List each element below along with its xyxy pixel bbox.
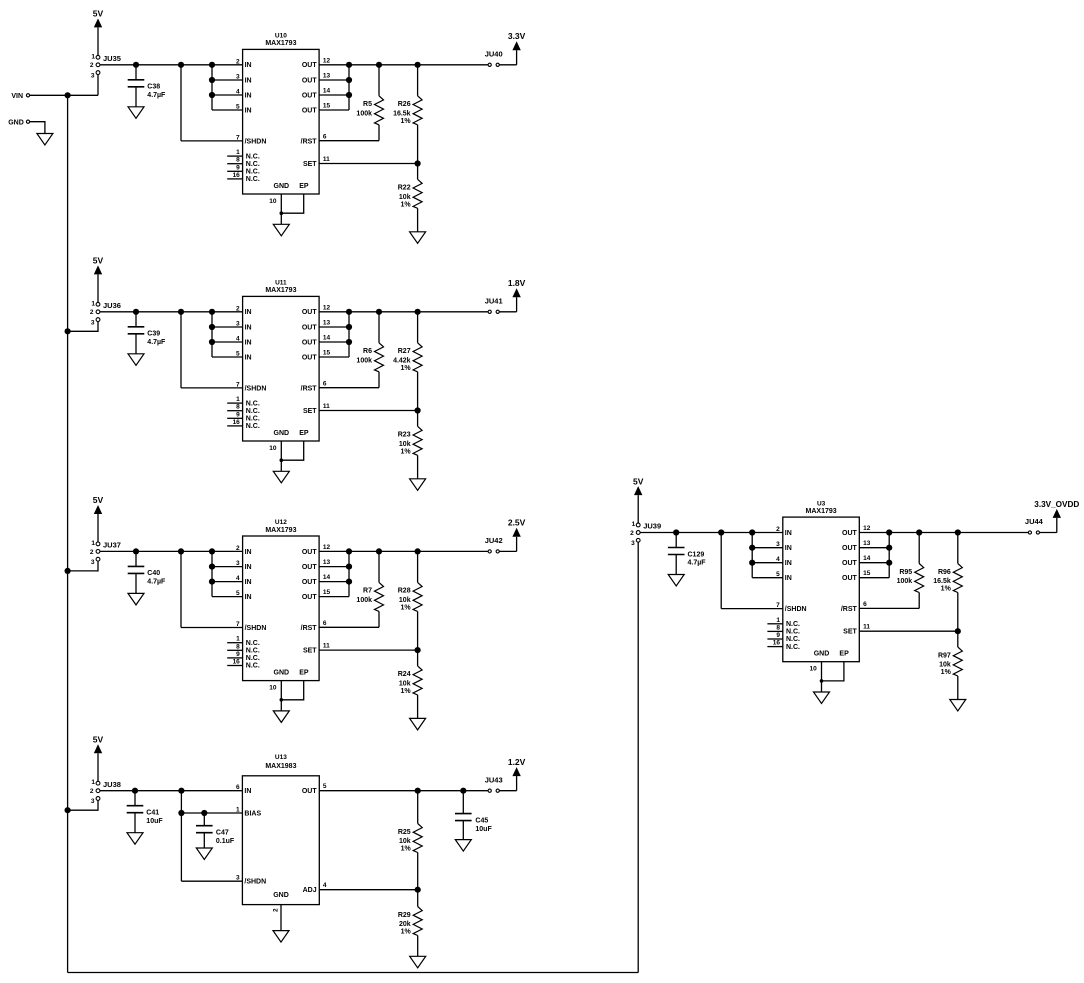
capacitor C41 10uF [127, 791, 164, 833]
svg-text:EP: EP [299, 430, 309, 437]
svg-text:IN: IN [245, 324, 252, 331]
svg-text:11: 11 [323, 156, 330, 163]
svg-text:15: 15 [323, 103, 331, 110]
jumper JU38 3-pin header [90, 779, 121, 805]
svg-text:10k: 10k [939, 662, 951, 669]
svg-text:16.5k: 16.5k [393, 110, 411, 117]
svg-text:0.1uF: 0.1uF [216, 838, 235, 845]
svg-text:1%: 1% [941, 586, 952, 593]
svg-text:IN: IN [785, 545, 792, 552]
wire JU39 pin2 to U3 IN [640, 529, 783, 535]
svg-text:U11: U11 [275, 280, 287, 287]
svg-text:OUT: OUT [302, 309, 318, 316]
svg-text:1%: 1% [941, 669, 952, 676]
svg-text:1: 1 [236, 396, 240, 403]
resistor R95 100k [897, 533, 924, 609]
ground under R24 [410, 718, 426, 730]
svg-text:3: 3 [236, 560, 240, 567]
pin numbers U13 [236, 783, 327, 912]
svg-text:5V: 5V [93, 9, 104, 19]
svg-text:10k: 10k [399, 838, 411, 845]
svg-text:1%: 1% [400, 365, 411, 372]
svg-text:15: 15 [863, 570, 871, 577]
svg-text:8: 8 [236, 157, 240, 164]
ground under R22 [410, 232, 426, 244]
wire VIN bottom run to JU39 [68, 972, 639, 974]
svg-text:10: 10 [269, 685, 277, 692]
svg-text:R22: R22 [398, 185, 411, 192]
resistor R29 20k 1% [398, 890, 422, 957]
resistor R5 100k [356, 65, 383, 141]
svg-text:5V: 5V [633, 476, 644, 486]
svg-text:1: 1 [91, 540, 95, 547]
ground under U11 GND pin [273, 471, 289, 483]
resistor R96 16.5k 1% [933, 533, 962, 632]
svg-text:100k: 100k [356, 597, 372, 604]
svg-text:GND: GND [274, 670, 290, 677]
svg-text:2: 2 [90, 788, 94, 795]
svg-text:OUT: OUT [302, 354, 318, 361]
svg-text:OUT: OUT [302, 62, 318, 69]
svg-text:1%: 1% [401, 846, 412, 853]
resistor R97 10k 1% [938, 631, 962, 699]
svg-text:3: 3 [236, 875, 240, 882]
wire /RST to R6 [319, 387, 379, 389]
svg-text:4.7µF: 4.7µF [147, 579, 166, 586]
svg-text:2: 2 [90, 62, 94, 69]
jumper JU40 2-pin [485, 50, 503, 67]
svg-text:100k: 100k [356, 110, 372, 117]
svg-text:13: 13 [323, 320, 331, 327]
svg-text:15: 15 [323, 350, 331, 357]
jumper JU44 2-pin [1025, 517, 1044, 534]
svg-text:10uF: 10uF [475, 826, 492, 833]
ground under C129 [668, 575, 684, 587]
svg-text:U10: U10 [275, 33, 287, 40]
svg-text:C38: C38 [147, 84, 160, 91]
wire GND/EP pins (U10) pin 10 [269, 194, 303, 224]
svg-text:/SHDN: /SHDN [245, 138, 267, 145]
svg-text:16: 16 [233, 172, 241, 179]
svg-text:16: 16 [773, 640, 781, 647]
capacitor C47 0.1uF [196, 810, 235, 848]
svg-text:7: 7 [776, 602, 780, 609]
svg-text:IN: IN [245, 309, 252, 316]
op-amp regulator U10 MAX1793 [243, 33, 320, 194]
svg-text:1: 1 [91, 53, 95, 60]
svg-text:14: 14 [323, 88, 331, 95]
svg-text:1: 1 [91, 300, 95, 307]
N.C. pin stubs (U12) [227, 643, 242, 666]
svg-text:OUT: OUT [302, 324, 318, 331]
svg-text:IN: IN [245, 549, 252, 556]
svg-text:R96: R96 [938, 569, 951, 576]
wire JU36 pin2 to U11 IN [100, 309, 243, 315]
regulator U13 MAX1983 [242, 754, 319, 904]
svg-text:14: 14 [323, 335, 331, 342]
svg-text:20k: 20k [399, 921, 411, 928]
svg-text:N.C.: N.C. [246, 423, 260, 430]
svg-text:7: 7 [236, 621, 240, 628]
svg-text:/RST: /RST [301, 138, 318, 145]
svg-text:SET: SET [843, 629, 857, 636]
capacitor C40 4.7µF [128, 551, 166, 593]
node GND input terminal [8, 119, 29, 126]
svg-text:IN: IN [785, 560, 792, 567]
wire SET to divider node (U12) [319, 647, 421, 653]
svg-text:IN: IN [245, 594, 252, 601]
N.C. pin stubs (U3) [767, 624, 782, 647]
svg-text:U3: U3 [817, 500, 826, 507]
resistor R7 100k [356, 551, 383, 627]
svg-text:R6: R6 [363, 348, 372, 355]
jumper JU43 2-pin [485, 775, 503, 792]
svg-text:12: 12 [863, 525, 871, 532]
svg-text:R5: R5 [363, 101, 372, 108]
wire ADJ to divider node (U13) [319, 887, 421, 893]
wire SET to divider node (U11) [319, 407, 421, 413]
wire U13 OUT to JU43 [319, 788, 488, 794]
ground under C45 [455, 840, 471, 852]
svg-text:EP: EP [299, 183, 309, 190]
svg-text:2: 2 [236, 545, 240, 552]
wire GND/EP pins (U3) pin 10 [809, 662, 843, 692]
wire IN pins 3-5 tie (U11) [209, 312, 243, 357]
svg-text:4: 4 [236, 336, 240, 343]
jumper JU36 3-pin header [90, 300, 121, 326]
op-amp regulator U11 MAX1793 [243, 280, 320, 441]
svg-text:2: 2 [236, 58, 240, 65]
svg-text:4.7µF: 4.7µF [688, 560, 707, 567]
power flag 3.3V_OVDD [1034, 500, 1079, 533]
svg-text:3: 3 [236, 74, 240, 81]
svg-text:4.42k: 4.42k [393, 357, 411, 364]
svg-text:N.C.: N.C. [246, 408, 260, 415]
ground under U12 GND pin [273, 711, 289, 723]
power 5V flag (U12 block) [93, 495, 104, 542]
svg-text:3: 3 [236, 321, 240, 328]
svg-text:OUT: OUT [302, 564, 318, 571]
svg-text:C45: C45 [475, 817, 488, 824]
svg-text:9: 9 [236, 164, 240, 171]
ground under R23 [410, 479, 426, 491]
svg-text:IN: IN [245, 92, 252, 99]
svg-text:U13: U13 [275, 754, 287, 761]
power 5V flag (U11 block) [93, 256, 104, 303]
svg-text:R29: R29 [398, 912, 411, 919]
wire JU37 pin2 to U12 IN [100, 548, 243, 554]
svg-text:GND: GND [274, 430, 290, 437]
svg-text:12: 12 [323, 544, 331, 551]
power flag 1.8V [499, 278, 525, 312]
svg-text:2: 2 [630, 530, 634, 537]
svg-text:R23: R23 [398, 432, 411, 439]
svg-text:JU36: JU36 [103, 301, 121, 310]
svg-text:2: 2 [776, 526, 780, 533]
svg-text:11: 11 [323, 403, 330, 410]
ground symbol at GND input [37, 134, 53, 146]
resistor R23 10k 1% [398, 411, 422, 479]
wire SET to divider node (U10) [319, 160, 421, 166]
wire JU38 pin3 to VIN rail [65, 800, 99, 813]
svg-text:6: 6 [863, 601, 867, 608]
svg-text:1%: 1% [400, 118, 411, 125]
svg-text:R25: R25 [398, 829, 411, 836]
svg-text:OUT: OUT [302, 339, 318, 346]
svg-text:13: 13 [863, 540, 871, 547]
resistor R28 10k 1% [398, 551, 422, 650]
capacitor C45 10uF [455, 791, 492, 840]
wire IN pins 3-5 tie (U12) [209, 551, 243, 596]
svg-text:14: 14 [863, 555, 871, 562]
svg-text:N.C.: N.C. [786, 644, 800, 651]
svg-text:2: 2 [236, 305, 240, 312]
svg-text:2.5V: 2.5V [508, 518, 526, 528]
wire JU38 pin2 to U13 IN [100, 788, 243, 794]
pin numbers U11 [233, 304, 331, 426]
capacitor C38 4.7µF [128, 65, 166, 107]
svg-text:R95: R95 [899, 569, 912, 576]
svg-text:N.C.: N.C. [246, 663, 260, 670]
ground under U10 GND pin [273, 224, 289, 236]
svg-text:JU42: JU42 [485, 536, 503, 545]
resistor R25 10k 1% [398, 791, 422, 890]
svg-text:MAX1793: MAX1793 [265, 287, 296, 294]
svg-text:U12: U12 [275, 519, 287, 526]
svg-text:12: 12 [323, 57, 331, 64]
svg-text:15: 15 [323, 589, 331, 596]
svg-text:8: 8 [776, 624, 780, 631]
power 5V flag (U13 block) [93, 735, 104, 782]
svg-text:1.8V: 1.8V [508, 278, 526, 288]
svg-text:IN: IN [245, 107, 252, 114]
svg-text:N.C.: N.C. [246, 169, 260, 176]
power flag 3.3V [499, 31, 525, 65]
svg-text:JU43: JU43 [485, 775, 503, 784]
svg-text:5: 5 [323, 783, 327, 790]
ground under U3 GND pin [814, 692, 830, 704]
svg-text:9: 9 [776, 632, 780, 639]
svg-text:3: 3 [91, 319, 95, 326]
wire OUT pins 13-15 tie (U10) [319, 65, 352, 110]
wire /RST to R5 [319, 140, 379, 142]
svg-text:1: 1 [91, 779, 95, 786]
wire U3 OUT to JU44 [859, 529, 1028, 535]
svg-text:C41: C41 [146, 810, 159, 817]
svg-text:R24: R24 [398, 671, 411, 678]
svg-text:EP: EP [299, 670, 309, 677]
svg-text:100k: 100k [356, 357, 372, 364]
resistor R24 10k 1% [398, 650, 422, 718]
jumper JU42 2-pin [485, 536, 503, 553]
svg-text:JU44: JU44 [1025, 517, 1044, 526]
wire GND/EP pins (U11) pin 10 [269, 441, 303, 471]
svg-text:4.7µF: 4.7µF [147, 339, 166, 346]
svg-text:IN: IN [245, 579, 252, 586]
wire JU36 pin3 to VIN rail [65, 322, 99, 335]
svg-text:100k: 100k [897, 578, 913, 585]
svg-text:GND: GND [814, 651, 830, 658]
svg-text:JU41: JU41 [485, 297, 503, 306]
svg-text:3: 3 [91, 798, 95, 805]
wire JU35 pin2 to U10 IN [100, 62, 243, 68]
wire VIN to JU35 pin3 [30, 75, 98, 99]
svg-text:10k: 10k [399, 681, 411, 688]
wire GND/EP pins (U12) pin 10 [269, 681, 303, 711]
N.C. pin stubs (U10) [227, 156, 242, 179]
svg-text:7: 7 [236, 134, 240, 141]
wire IN pins 3-5 tie (U10) [209, 65, 243, 110]
wire VIN vertical rail [67, 95, 69, 972]
svg-text:OUT: OUT [302, 579, 318, 586]
svg-text:1: 1 [632, 521, 636, 528]
svg-text:OUT: OUT [842, 545, 858, 552]
svg-text:VIN: VIN [11, 93, 23, 100]
svg-text:IN: IN [785, 530, 792, 537]
svg-text:GND: GND [274, 183, 290, 190]
svg-text:N.C.: N.C. [246, 416, 260, 423]
svg-text:10k: 10k [399, 597, 411, 604]
svg-text:10: 10 [269, 445, 277, 452]
svg-text:6: 6 [323, 620, 327, 627]
svg-text:EP: EP [839, 651, 849, 658]
svg-text:/RST: /RST [841, 606, 858, 613]
pin numbers U3 [773, 525, 871, 647]
svg-text:JU39: JU39 [643, 522, 661, 531]
svg-text:16: 16 [233, 419, 241, 426]
svg-text:8: 8 [236, 643, 240, 650]
svg-text:3.3V: 3.3V [508, 31, 526, 41]
svg-text:IN: IN [245, 339, 252, 346]
ground under C39 [128, 354, 144, 366]
svg-text:5: 5 [236, 351, 240, 358]
svg-text:IN: IN [244, 788, 251, 795]
power flag 1.2V [499, 757, 525, 791]
svg-text:1%: 1% [400, 202, 411, 209]
svg-text:4.7µF: 4.7µF [147, 92, 166, 99]
svg-text:N.C.: N.C. [786, 629, 800, 636]
svg-text:3: 3 [91, 72, 95, 79]
svg-text:R7: R7 [363, 588, 372, 595]
op-amp regulator U12 MAX1793 [243, 519, 320, 680]
svg-text:C129: C129 [688, 551, 705, 558]
svg-text:1: 1 [776, 617, 780, 624]
wire /SHDN feed (U11 pin7) [181, 312, 243, 388]
svg-text:5V: 5V [93, 735, 104, 745]
svg-text:5V: 5V [93, 495, 104, 505]
svg-text:2: 2 [273, 908, 280, 912]
svg-text:/SHDN: /SHDN [785, 606, 807, 613]
svg-text:MAX1793: MAX1793 [806, 508, 837, 515]
wire U12 OUT to JU42 [319, 548, 488, 554]
svg-text:IN: IN [245, 354, 252, 361]
svg-text:BIAS: BIAS [244, 810, 261, 817]
N.C. pin stubs (U11) [227, 403, 242, 426]
svg-text:1: 1 [236, 149, 240, 156]
svg-text:N.C.: N.C. [246, 640, 260, 647]
resistor R26 16.5k 1% [393, 65, 422, 164]
svg-text:1.2V: 1.2V [508, 757, 526, 767]
svg-text:12: 12 [323, 304, 331, 311]
svg-text:3.3V_OVDD: 3.3V_OVDD [1034, 500, 1079, 509]
wire /RST to R7 [319, 626, 379, 628]
svg-text:10: 10 [269, 198, 277, 205]
svg-text:MAX1793: MAX1793 [265, 40, 296, 47]
svg-text:9: 9 [236, 411, 240, 418]
svg-text:16: 16 [233, 659, 241, 666]
svg-text:OUT: OUT [302, 107, 318, 114]
svg-text:1%: 1% [401, 929, 412, 936]
svg-text:ADJ: ADJ [303, 887, 317, 894]
svg-text:5V: 5V [93, 256, 104, 266]
wire U11 OUT to JU41 [319, 309, 488, 315]
svg-text:1%: 1% [400, 605, 411, 612]
svg-text:3: 3 [631, 540, 635, 547]
svg-text:OUT: OUT [842, 560, 858, 567]
svg-text:/RST: /RST [301, 385, 318, 392]
wire JU39 pin3 down to bottom VIN wire [637, 542, 639, 972]
svg-text:/SHDN: /SHDN [245, 625, 267, 632]
wire OUT pins 13-15 tie (U3) [859, 533, 892, 578]
pin numbers U12 [233, 544, 331, 666]
svg-text:10: 10 [809, 666, 817, 673]
svg-text:N.C.: N.C. [786, 621, 800, 628]
power 5V flag (U3 block) [633, 476, 644, 523]
svg-text:10uF: 10uF [146, 818, 163, 825]
jumper JU35 3-pin header [90, 53, 121, 79]
svg-text:N.C.: N.C. [246, 655, 260, 662]
svg-text:5: 5 [236, 590, 240, 597]
wire /SHDN feed (U12 pin7) [181, 551, 243, 627]
svg-text:OUT: OUT [302, 92, 318, 99]
wire OUT pins 13-15 tie (U11) [319, 312, 352, 357]
ground under U13 GND pin [273, 931, 289, 943]
svg-text:1%: 1% [400, 688, 411, 695]
svg-text:3: 3 [91, 559, 95, 566]
svg-text:3: 3 [776, 541, 780, 548]
svg-text:1: 1 [236, 636, 240, 643]
wire /SHDN feed (U10 pin7) [181, 65, 243, 141]
jumper JU37 3-pin header [90, 540, 121, 566]
svg-text:5: 5 [776, 571, 780, 578]
svg-text:6: 6 [236, 784, 240, 791]
ground under R97 [950, 700, 966, 712]
svg-text:OUT: OUT [302, 594, 318, 601]
svg-text:N.C.: N.C. [246, 153, 260, 160]
svg-text:SET: SET [303, 408, 317, 415]
resistor R27 4.42k 1% [393, 312, 422, 411]
svg-text:10k: 10k [399, 441, 411, 448]
svg-text:JU35: JU35 [103, 54, 121, 63]
svg-text:/RST: /RST [301, 625, 318, 632]
svg-text:6: 6 [323, 133, 327, 140]
svg-text:MAX1983: MAX1983 [265, 763, 296, 770]
node VIN input terminal [11, 93, 29, 100]
svg-text:IN: IN [245, 564, 252, 571]
svg-text:10k: 10k [399, 194, 411, 201]
pin numbers U10 [233, 57, 331, 179]
svg-text:C39: C39 [147, 331, 160, 338]
power 5V flag (U10 block) [93, 9, 104, 56]
svg-text:OUT: OUT [302, 549, 318, 556]
svg-text:JU37: JU37 [103, 541, 121, 550]
svg-text:OUT: OUT [302, 788, 318, 795]
svg-text:7: 7 [236, 381, 240, 388]
jumper JU39 3-pin header [630, 521, 661, 547]
svg-text:C47: C47 [216, 830, 229, 837]
svg-text:N.C.: N.C. [246, 648, 260, 655]
svg-text:N.C.: N.C. [246, 400, 260, 407]
